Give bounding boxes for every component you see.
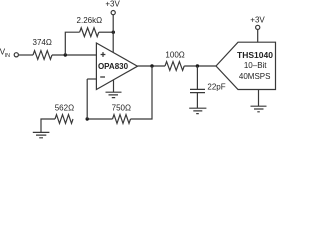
ground ADC [251,106,267,112]
ground op-amp [106,92,122,97]
node cap junction dot [196,64,199,67]
wire feedback right riser [131,66,153,119]
node junction dot +3V rail [112,31,115,34]
op-amp plus input symbol [101,52,106,57]
node VIN label [0,48,10,59]
wire 562 to ground corner [41,119,55,132]
svg-text:IN: IN [5,53,10,59]
Vin input terminal circle [14,53,18,57]
wire minus input [87,78,96,80]
wire feedback left riser to minus input [86,79,88,119]
wire +3V supply to op-amp V+ pin [112,15,114,53]
capacitor 22pF plates [190,89,205,92]
resistor 100ohm zigzag [165,62,184,71]
svg-text:THS1040: THS1040 [237,50,273,60]
wire 750 to feedback node [87,118,112,120]
wire Vin to R 374 [19,54,33,56]
wire op-amp V- pin to ground [113,80,115,92]
resistor 2.26kohm zigzag [80,28,99,37]
ground 562 [33,132,50,137]
op-amp minus input symbol [100,76,105,78]
svg-text:750Ω: 750Ω [112,103,131,112]
node feedback junction dot [86,117,89,120]
svg-text:+3V: +3V [105,0,120,9]
+3V terminal circle right [256,25,260,29]
svg-text:374Ω: 374Ω [33,38,52,47]
op-amp U1 OPA830 triangle [96,43,137,90]
wire 2.26k to +3V node [99,31,114,33]
svg-text:OPA830: OPA830 [98,62,129,71]
wire R374 to op-amp + input [52,54,96,56]
wire ADC ground pin [258,90,260,107]
wire riser to 2.26k branch [65,32,79,55]
svg-text:2.26kΩ: 2.26kΩ [77,16,103,25]
svg-text:40MSPS: 40MSPS [239,72,271,81]
ADC U2 THS1040 block [216,42,276,89]
resistor 562ohm zigzag [55,115,73,124]
svg-text:10–Bit: 10–Bit [244,61,267,70]
wire cap top lead [196,66,198,89]
resistor 374ohm zigzag [33,51,52,60]
wire cap bottom lead [196,93,198,108]
wire +3V to ADC top [257,30,259,43]
+3V terminal circle left [111,11,115,15]
resistor 750ohm zigzag [113,115,131,124]
svg-text:562Ω: 562Ω [55,104,74,113]
ground cap [189,108,206,113]
node output junction dot [150,64,153,67]
svg-text:+3V: +3V [250,16,265,25]
svg-text:22pF: 22pF [207,82,225,91]
svg-text:100Ω: 100Ω [165,51,184,60]
wire output to 100ohm [138,65,166,67]
wire 100ohm to ADC input [184,65,216,67]
node junction dot at + input [64,53,67,56]
